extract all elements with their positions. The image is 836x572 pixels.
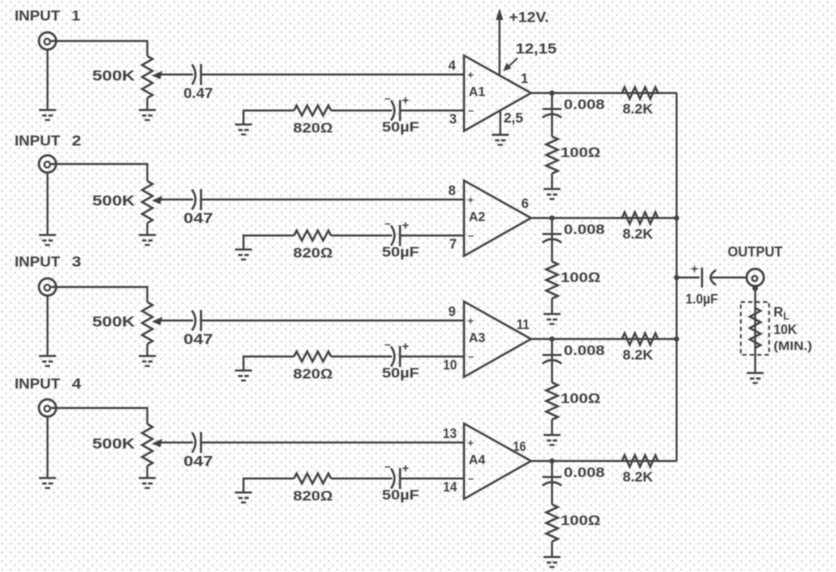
svg-text:8.2K: 8.2K bbox=[623, 101, 654, 117]
svg-text:12,15: 12,15 bbox=[516, 41, 557, 57]
svg-text:+12V.: +12V. bbox=[509, 10, 549, 26]
svg-text:A2: A2 bbox=[469, 210, 486, 224]
svg-text:–: – bbox=[468, 351, 474, 363]
svg-text:50µF: 50µF bbox=[382, 486, 420, 502]
svg-text:14: 14 bbox=[443, 479, 457, 494]
svg-text:A4: A4 bbox=[469, 453, 486, 467]
svg-text:047: 047 bbox=[184, 332, 214, 348]
svg-text:INPUT: INPUT bbox=[15, 8, 61, 25]
svg-text:820Ω: 820Ω bbox=[293, 245, 333, 261]
svg-text:+: + bbox=[402, 94, 409, 108]
svg-text:0.47: 0.47 bbox=[184, 86, 214, 102]
svg-text:OUTPUT: OUTPUT bbox=[728, 243, 783, 260]
svg-text:500K: 500K bbox=[92, 192, 135, 209]
svg-text:7: 7 bbox=[449, 236, 457, 251]
svg-text:10K: 10K bbox=[774, 322, 798, 337]
svg-text:+: + bbox=[468, 69, 474, 81]
svg-text:2: 2 bbox=[72, 133, 82, 150]
svg-text:+: + bbox=[402, 219, 409, 233]
svg-text:A1: A1 bbox=[469, 85, 486, 99]
svg-text:+: + bbox=[402, 462, 409, 476]
svg-text:820Ω: 820Ω bbox=[293, 488, 333, 504]
svg-text:13: 13 bbox=[443, 426, 457, 441]
svg-text:INPUT: INPUT bbox=[15, 254, 61, 271]
svg-text:500K: 500K bbox=[92, 67, 135, 84]
svg-text:3: 3 bbox=[72, 254, 82, 271]
svg-text:3: 3 bbox=[449, 111, 457, 126]
svg-text:500K: 500K bbox=[92, 313, 135, 330]
svg-text:–: – bbox=[468, 473, 474, 485]
svg-text:100Ω: 100Ω bbox=[561, 390, 601, 406]
svg-text:4: 4 bbox=[448, 58, 456, 73]
svg-text:INPUT: INPUT bbox=[15, 133, 61, 150]
svg-text:100Ω: 100Ω bbox=[561, 144, 601, 160]
svg-text:0.008: 0.008 bbox=[564, 96, 605, 112]
svg-text:INPUT: INPUT bbox=[15, 376, 61, 393]
svg-text:9: 9 bbox=[448, 304, 456, 319]
svg-text:–: – bbox=[385, 93, 391, 105]
svg-text:–: – bbox=[468, 105, 474, 117]
svg-text:50µF: 50µF bbox=[382, 243, 420, 259]
svg-text:1: 1 bbox=[521, 71, 529, 86]
svg-text:0.008: 0.008 bbox=[564, 342, 605, 358]
svg-text:10: 10 bbox=[443, 357, 457, 372]
svg-text:500K: 500K bbox=[92, 435, 135, 452]
svg-text:8.2K: 8.2K bbox=[623, 347, 654, 363]
svg-text:820Ω: 820Ω bbox=[293, 120, 333, 136]
svg-text:–: – bbox=[385, 461, 391, 473]
svg-text:–: – bbox=[385, 339, 391, 351]
svg-text:047: 047 bbox=[184, 211, 214, 227]
svg-text:8.2K: 8.2K bbox=[623, 469, 654, 485]
svg-text:–: – bbox=[385, 218, 391, 230]
svg-text:8.2K: 8.2K bbox=[623, 226, 654, 242]
svg-text:–: – bbox=[468, 230, 474, 242]
svg-text:+: + bbox=[468, 194, 474, 206]
svg-text:8: 8 bbox=[448, 183, 456, 198]
svg-text:A3: A3 bbox=[469, 331, 486, 345]
svg-text:820Ω: 820Ω bbox=[293, 366, 333, 382]
svg-text:16: 16 bbox=[513, 439, 526, 454]
svg-text:+: + bbox=[468, 437, 474, 449]
svg-text:100Ω: 100Ω bbox=[561, 512, 601, 528]
svg-text:+: + bbox=[691, 262, 698, 276]
svg-text:+: + bbox=[402, 340, 409, 354]
svg-text:50µF: 50µF bbox=[382, 364, 420, 380]
svg-text:(MIN.): (MIN.) bbox=[774, 339, 813, 353]
svg-text:11: 11 bbox=[517, 317, 530, 332]
svg-text:0.008: 0.008 bbox=[564, 464, 605, 480]
svg-text:50µF: 50µF bbox=[382, 118, 420, 134]
svg-text:0.008: 0.008 bbox=[564, 221, 605, 237]
svg-text:1: 1 bbox=[72, 8, 80, 25]
svg-text:6: 6 bbox=[521, 196, 529, 211]
svg-text:1.0µF: 1.0µF bbox=[686, 291, 719, 307]
svg-text:2,5: 2,5 bbox=[504, 110, 524, 126]
svg-text:+: + bbox=[468, 315, 474, 327]
svg-text:047: 047 bbox=[184, 454, 214, 470]
svg-text:4: 4 bbox=[72, 376, 82, 393]
svg-text:100Ω: 100Ω bbox=[561, 269, 601, 285]
